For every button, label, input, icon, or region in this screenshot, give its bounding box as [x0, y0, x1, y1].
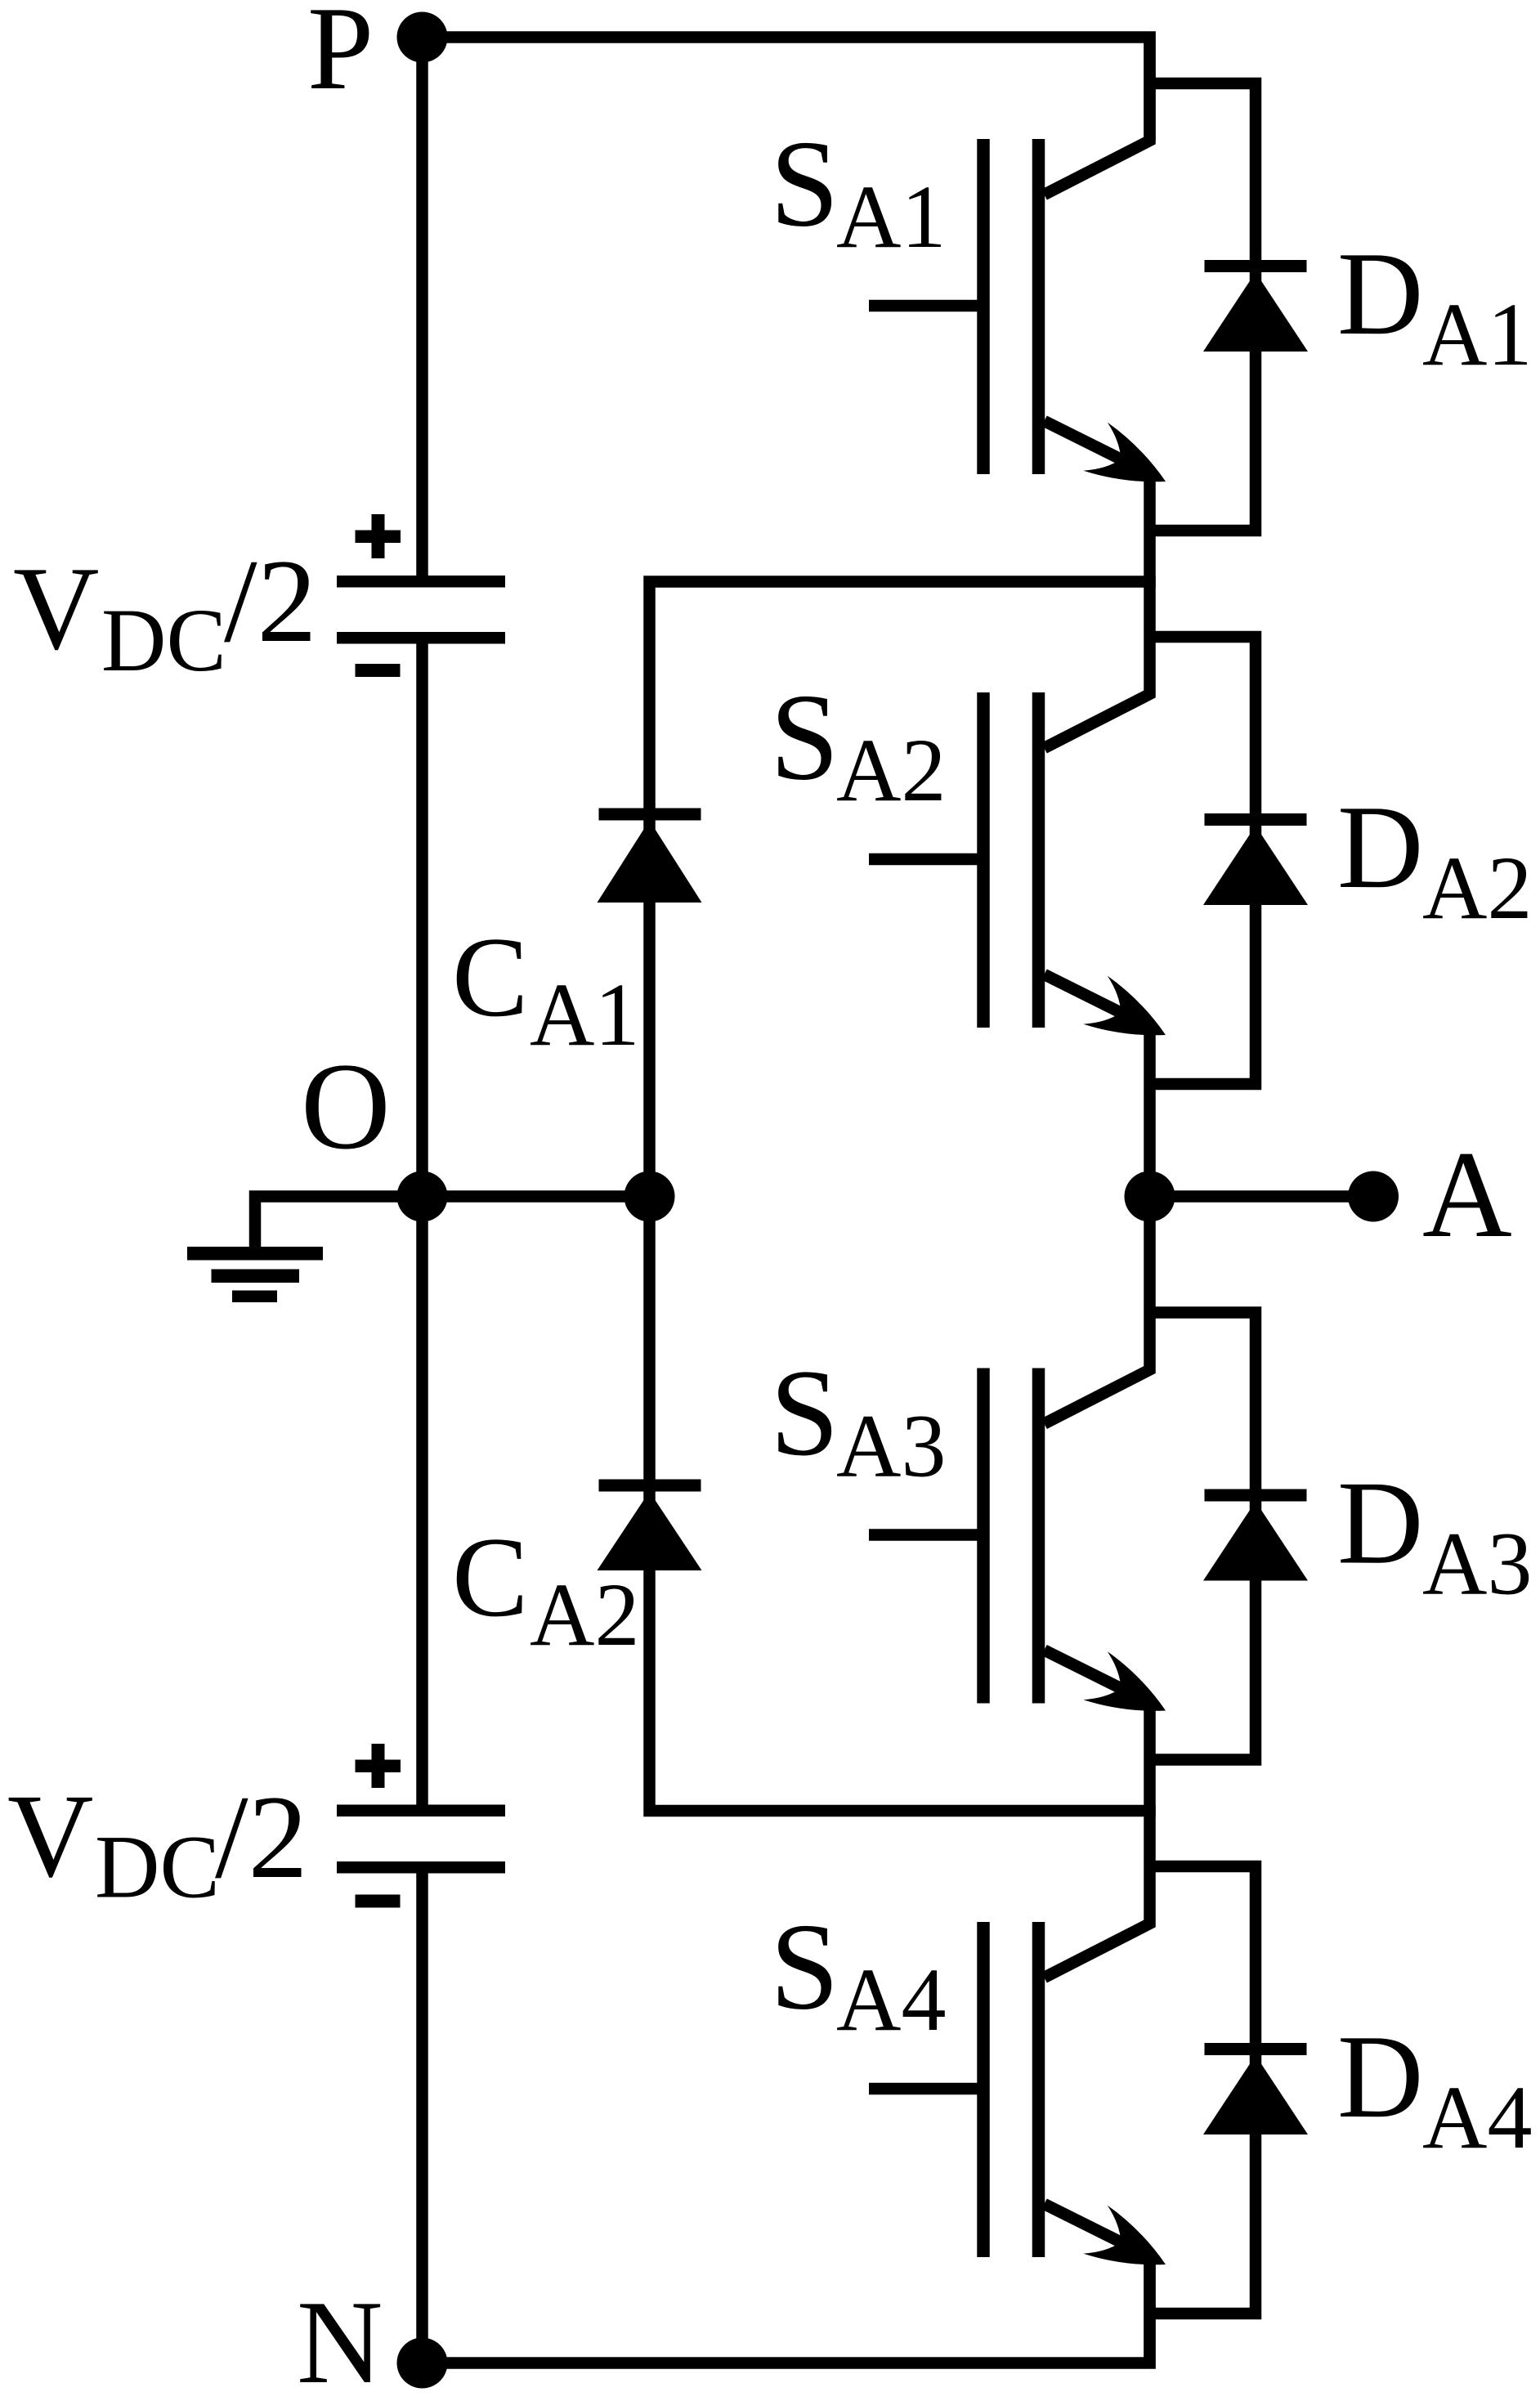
wire left bus middle (C1 to node O) — [416, 638, 428, 1197]
svg-text:A1: A1 — [1422, 284, 1532, 384]
wire output (junction to terminal A) — [1150, 1190, 1374, 1203]
svg-text:/2: /2 — [224, 535, 317, 667]
svg-text:A2: A2 — [1422, 838, 1532, 938]
node clamp junction on O wire — [625, 1171, 675, 1222]
svg-text:A3: A3 — [836, 1396, 946, 1496]
node output junction — [1125, 1171, 1175, 1222]
svg-text:O: O — [301, 1037, 391, 1175]
wire O junction with ground stub corner — [255, 1197, 650, 1254]
svg-text:A2: A2 — [530, 1565, 639, 1664]
wire clamp branch (S_A1/S_A2 junction, down through clamp diodes, to S_A3/S_A4 junction) — [650, 582, 1156, 1812]
svg-text:P: P — [307, 0, 374, 114]
svg-text:D: D — [1337, 1457, 1423, 1589]
svg-text:C: C — [452, 914, 528, 1041]
svg-text:A3: A3 — [1422, 1514, 1532, 1614]
svg-text:A2: A2 — [836, 720, 946, 820]
transistor S_A2 (IGBT) — [869, 576, 1166, 1203]
svg-text:N: N — [297, 2276, 383, 2401]
wire left bus upper (P to capacitor C1) — [416, 38, 428, 583]
svg-text:/2: /2 — [215, 1771, 308, 1903]
wire left bus bottom (C2 to node N) — [416, 1867, 428, 2363]
svg-text:V: V — [7, 1770, 93, 1902]
capacitor VDC/2 upper (C1) — [337, 576, 505, 588]
diode D_A3 (antiparallel) — [1150, 1313, 1309, 1760]
diode D_A1 (antiparallel) — [1150, 83, 1309, 531]
clamp diode C_A1 — [599, 809, 701, 821]
node O — [397, 1171, 448, 1222]
svg-text:D: D — [1337, 227, 1423, 360]
svg-text:S: S — [770, 115, 839, 253]
svg-text:S: S — [770, 669, 839, 806]
svg-text:DC: DC — [101, 590, 226, 690]
svg-text:D: D — [1337, 2010, 1423, 2143]
svg-text:A: A — [1422, 1126, 1512, 1263]
node N — [397, 2338, 448, 2389]
transistor S_A4 (IGBT) — [869, 1805, 1166, 2369]
svg-text:A4: A4 — [1422, 2067, 1532, 2167]
svg-text:A1: A1 — [836, 167, 946, 267]
svg-text:A4: A4 — [836, 1950, 946, 2049]
svg-text:S: S — [770, 1344, 839, 1481]
node terminal A — [1348, 1171, 1399, 1222]
wire N rail (node N to bottom of switch chain, corner up) — [423, 2263, 1150, 2363]
svg-text:DC: DC — [95, 1817, 220, 1917]
svg-text:V: V — [13, 542, 99, 674]
svg-text:S: S — [770, 1898, 839, 2036]
svg-text:D: D — [1337, 781, 1423, 913]
wire P rail (node P to top of switch chain, corner down) — [423, 38, 1150, 141]
transistor S_A1 (IGBT) — [869, 32, 1166, 588]
transistor S_A3 (IGBT) — [869, 1191, 1166, 1817]
clamp diode C_A2 — [599, 1480, 701, 1492]
node P — [397, 12, 448, 63]
svg-text:C: C — [452, 1514, 528, 1641]
wire left bus lower (node O to capacitor C2) — [416, 1197, 428, 1812]
svg-text:A1: A1 — [530, 965, 639, 1064]
capacitor VDC/2 lower (C2) — [337, 1805, 505, 1817]
ground — [187, 1247, 323, 1261]
diode D_A4 (antiparallel) — [1150, 1866, 1309, 2314]
diode D_A2 (antiparallel) — [1150, 637, 1309, 1084]
